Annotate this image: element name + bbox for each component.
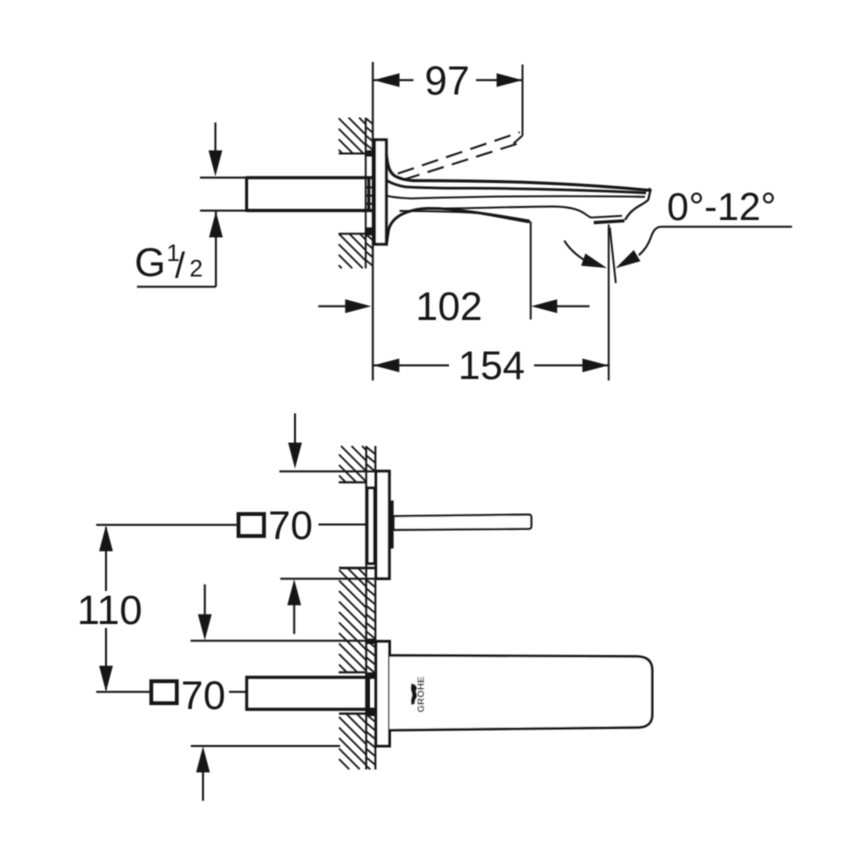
svg-text:154: 154 [458, 344, 525, 388]
svg-text:70: 70 [268, 504, 313, 548]
svg-text:0°-12°: 0°-12° [667, 186, 776, 229]
svg-text:97: 97 [425, 57, 470, 103]
svg-text:102: 102 [416, 285, 483, 329]
svg-text:110: 110 [77, 587, 142, 633]
svg-text:GROHE: GROHE [416, 677, 427, 713]
svg-text:70: 70 [181, 674, 226, 718]
svg-text:2: 2 [190, 256, 203, 283]
svg-text:/: / [175, 245, 185, 286]
svg-text:G: G [135, 241, 166, 285]
